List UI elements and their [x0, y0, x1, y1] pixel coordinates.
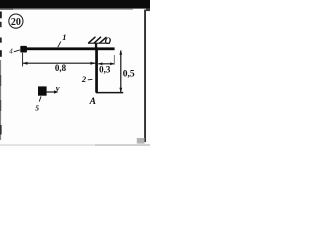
svg-text:1: 1: [62, 32, 66, 42]
dimension 0,5: arrowheads: [119, 50, 122, 54]
right page frame line: [144, 10, 146, 142]
support hatching above pivot: [89, 37, 106, 43]
svg-text:O: O: [105, 36, 112, 46]
support base line: [88, 42, 110, 44]
paper background: [0, 0, 150, 150]
dimension 0,3: arrowheads: [98, 62, 102, 65]
dimension 0,8: arrowheads: [23, 62, 28, 65]
rod 1 (horizontal): [21, 47, 115, 50]
dimension 0,8: left extension line: [22, 53, 24, 67]
dimension 0,5: bottom extension line from A: [96, 92, 123, 94]
svg-text:5: 5: [35, 103, 39, 112]
label 5 leader: [39, 96, 41, 101]
svg-text:v: v: [56, 83, 60, 93]
bottom faint scan line: [0, 144, 150, 146]
svg-text:A: A: [89, 97, 96, 107]
svg-text:4: 4: [9, 48, 13, 56]
top scan bar: [0, 0, 150, 9]
end mass blob 4: [20, 46, 27, 53]
dimension 0,5: vertical line: [120, 50, 122, 92]
rod 2 (vertical): [95, 47, 98, 92]
velocity arrow: [47, 91, 56, 93]
left edge scan marks: [0, 12, 2, 19]
svg-text:0,8: 0,8: [55, 63, 67, 73]
svg-text:20: 20: [11, 17, 21, 28]
bottom-right gray blob: [137, 138, 145, 144]
svg-text:0,5: 0,5: [123, 69, 135, 79]
bullet block 5: [38, 86, 47, 95]
dimension 0,3: line: [98, 63, 114, 65]
svg-text:2: 2: [81, 74, 87, 84]
pivot pin: [95, 43, 97, 48]
svg-text:0,3: 0,3: [99, 64, 111, 74]
problem number circle 20: [9, 14, 23, 28]
dimension 0,8: line: [23, 62, 96, 64]
dimension 0,3: right extension line: [113, 55, 115, 65]
